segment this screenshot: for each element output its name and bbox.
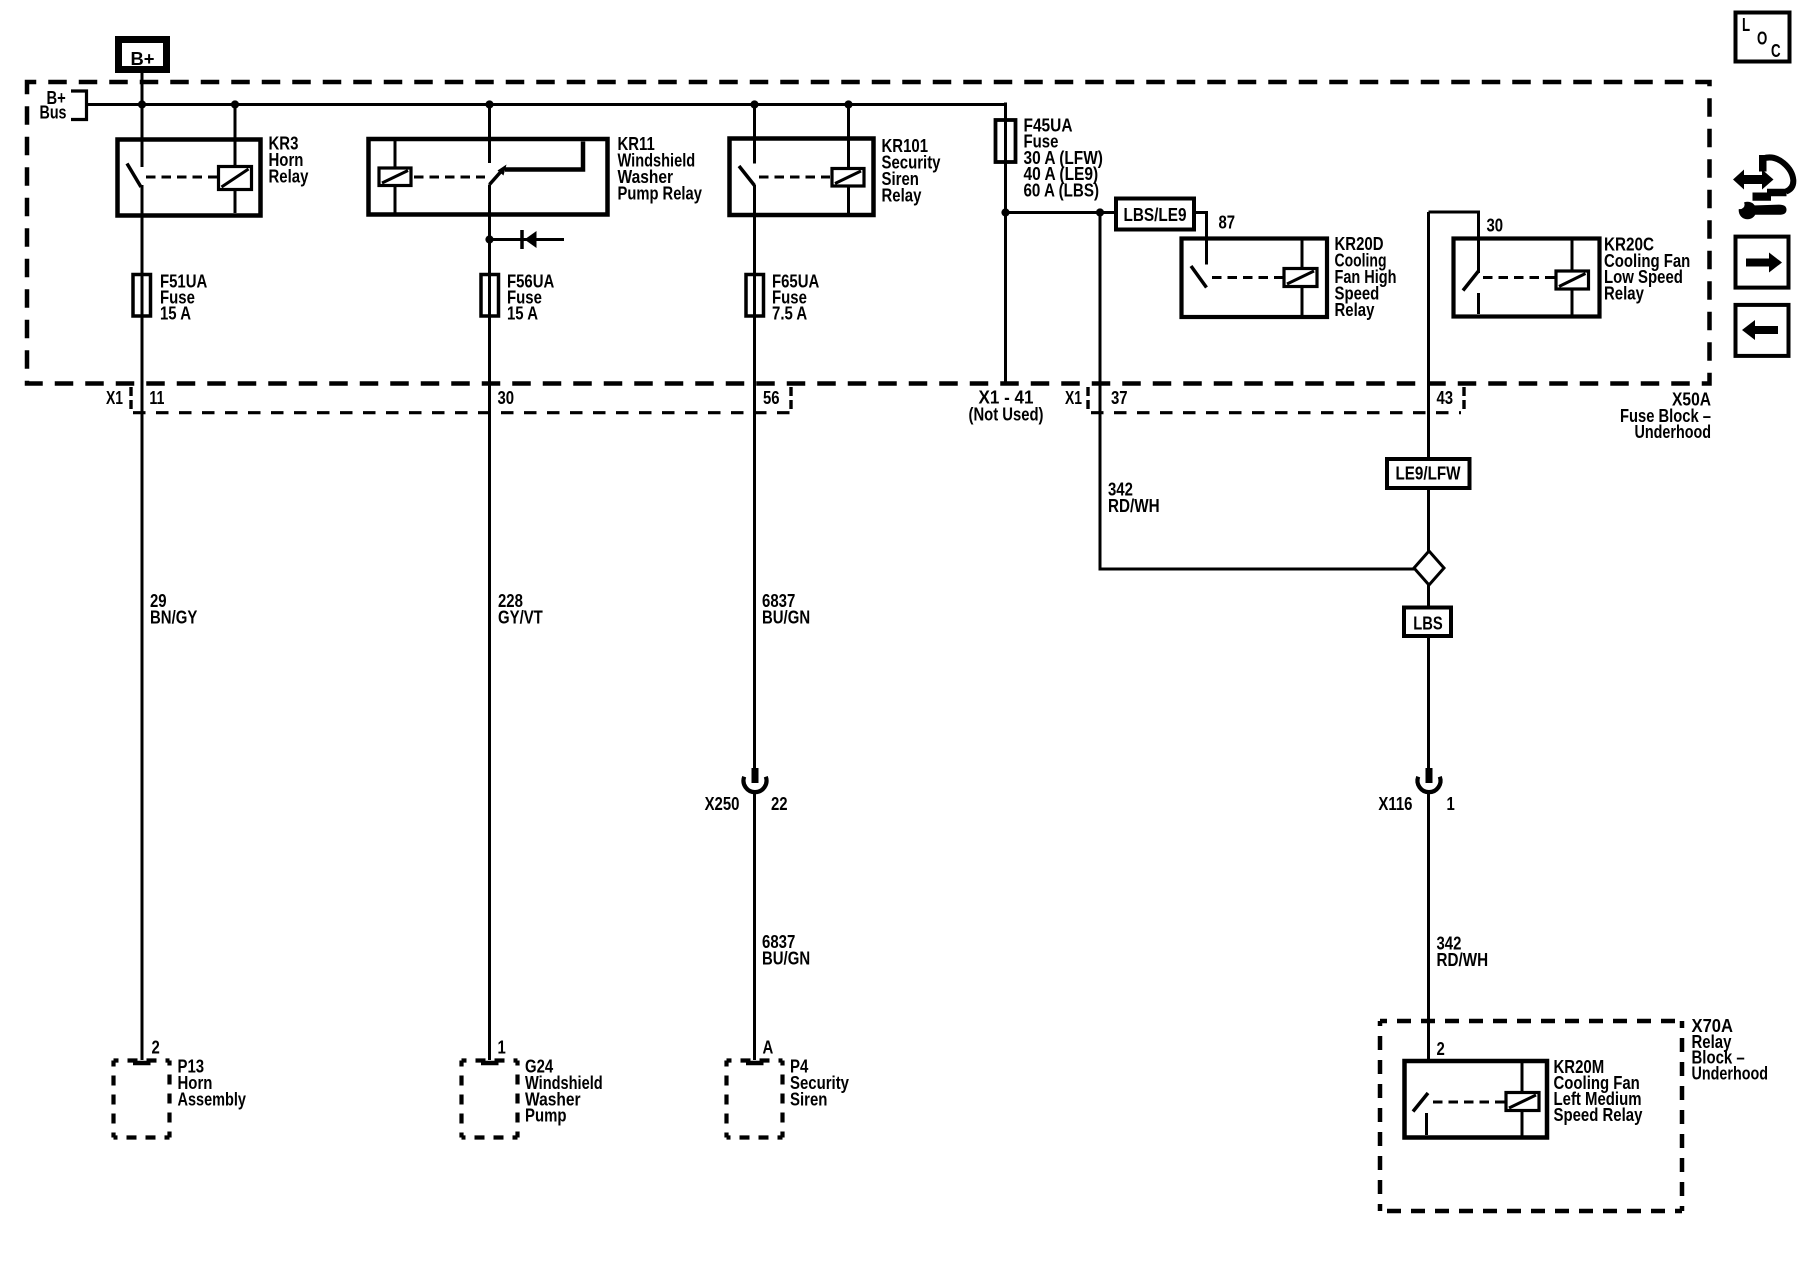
KR20C actuation dashed link	[1483, 276, 1555, 279]
svg-text:X116: X116	[1378, 794, 1412, 814]
connector X1 label left	[106, 388, 123, 408]
pin 2 P13	[152, 1038, 160, 1058]
svg-text:Relay: Relay	[1604, 284, 1644, 304]
wire LBS/LE9 to KR20D pin 87	[1194, 213, 1207, 265]
KR20M coil	[1506, 1063, 1539, 1136]
G24 terminal bar	[481, 1061, 499, 1066]
svg-text:BN/GY: BN/GY	[150, 607, 197, 627]
pin 2 KR20M	[1437, 1039, 1445, 1059]
wire bus corner down through F45UA	[1004, 103, 1007, 213]
component G24 dashed box	[462, 1061, 518, 1138]
relay KR20C box	[1454, 239, 1600, 317]
fuse F56UA	[481, 275, 499, 317]
relay KR20D box	[1182, 239, 1328, 318]
pin 56	[763, 388, 780, 408]
svg-text:LBS: LBS	[1413, 614, 1443, 634]
relay block X70A dashed border	[1380, 1021, 1682, 1211]
KR20C switch blade	[1463, 271, 1479, 314]
wire stub X1-41 not used	[1004, 213, 1007, 383]
wire KR11 output down to G24	[488, 185, 491, 1061]
KR3 actuation dashed link	[146, 176, 217, 179]
svg-text:15 A: 15 A	[507, 304, 538, 324]
pin 11	[149, 388, 164, 408]
component P4 dashed box	[727, 1061, 783, 1138]
svg-text:7.5 A: 7.5 A	[772, 304, 807, 324]
battery terminal B+	[119, 40, 167, 70]
svg-text:11: 11	[149, 388, 164, 408]
separator after 56	[789, 387, 792, 409]
wire KR3 switch output down to P13	[141, 185, 144, 1060]
svg-text:RD/WH: RD/WH	[1108, 496, 1160, 516]
KR20D coil	[1284, 241, 1317, 316]
wire label 342 RD/WH lower	[1437, 934, 1489, 970]
svg-text:C: C	[1771, 41, 1781, 61]
relay KR20D label	[1335, 234, 1397, 320]
connector X250 labels	[705, 794, 788, 814]
svg-text:56: 56	[763, 388, 780, 408]
relay KR20M box	[1405, 1061, 1548, 1138]
svg-text:Siren: Siren	[790, 1089, 827, 1109]
net tag LBS	[1404, 608, 1451, 637]
wire KR101 switch feed from bus	[750, 100, 758, 163]
pin 30 label	[1487, 216, 1504, 236]
svg-text:Relay: Relay	[882, 185, 922, 205]
svg-text:GY/VT: GY/VT	[498, 607, 543, 627]
forward arrow box	[1736, 237, 1789, 288]
svg-text:Underhood: Underhood	[1692, 1064, 1769, 1084]
wire label 6837 BU/GN	[762, 591, 810, 627]
vehicle double-arrow icon	[1733, 155, 1793, 201]
svg-text:X1: X1	[106, 388, 123, 408]
fuse F51UA	[133, 275, 151, 317]
relay block X70A name	[1692, 1016, 1769, 1083]
KR20M actuation dashed link	[1433, 1101, 1505, 1104]
svg-text:LE9/LFW: LE9/LFW	[1396, 464, 1461, 484]
component G24 label	[525, 1057, 603, 1126]
KR11 switch blade with arrow	[490, 165, 507, 185]
KR11 normally-open contact branch	[505, 142, 583, 170]
connector X1 label right	[1065, 388, 1082, 408]
fuse F56UA label	[507, 271, 554, 323]
fuse F65UA	[746, 275, 764, 317]
wire KR101 output down to P4	[753, 185, 756, 1060]
KR20C coil	[1556, 241, 1589, 315]
fuse F45UA	[996, 120, 1016, 162]
wire pin 37 drop and run to diamond	[1100, 213, 1414, 570]
separator X1|11	[129, 387, 132, 409]
wire B+ terminal drop to KR3 switch	[138, 73, 146, 167]
relay KR101 label	[882, 136, 941, 205]
svg-text:B+: B+	[131, 49, 155, 69]
node B+ Bus label	[40, 88, 87, 122]
svg-text:43: 43	[1437, 388, 1454, 408]
KR11 coil	[379, 168, 411, 186]
connector X116 labels	[1378, 794, 1454, 814]
node junction below F45UA	[1001, 208, 1009, 216]
svg-text:30: 30	[1487, 216, 1504, 236]
svg-text:Bus: Bus	[40, 102, 67, 122]
net tag LE9/LFW	[1387, 459, 1470, 488]
component P4 label	[790, 1057, 849, 1110]
relay KR20C label	[1604, 235, 1690, 304]
fuse block X50A name	[1620, 390, 1711, 442]
svg-text:LBS/LE9: LBS/LE9	[1124, 205, 1187, 225]
svg-text:Pump Relay: Pump Relay	[618, 183, 702, 203]
svg-text:BU/GN: BU/GN	[762, 948, 810, 968]
relay KR20M label	[1554, 1057, 1643, 1125]
component P13 label	[178, 1057, 247, 1110]
svg-text:60 A (LBS): 60 A (LBS)	[1024, 180, 1100, 200]
KR101 switch blade	[739, 166, 755, 186]
svg-text:30: 30	[498, 388, 515, 408]
svg-text:15 A: 15 A	[160, 304, 191, 324]
fuse F45UA label	[1024, 116, 1103, 201]
svg-text:Speed Relay: Speed Relay	[1554, 1105, 1643, 1125]
LOC reference box	[1736, 13, 1790, 62]
net tag LBS/LE9	[1116, 199, 1194, 230]
svg-text:22: 22	[771, 794, 788, 814]
svg-text:1: 1	[498, 1038, 506, 1058]
wire KR11 switch feed from bus	[485, 100, 493, 163]
connector row thin dashed line left segment	[133, 411, 791, 414]
wire branch to LBS/LE9	[1006, 208, 1117, 216]
separator X1|37	[1086, 387, 1089, 409]
KR11 actuation dashed link	[414, 176, 485, 179]
P13 terminal bar	[133, 1061, 151, 1066]
svg-text:BU/GN: BU/GN	[762, 607, 810, 627]
fuse F65UA label	[772, 271, 819, 323]
KR101 coil	[832, 169, 864, 187]
KR20M switch blade	[1413, 1093, 1428, 1135]
wire KR20C pin30 L-feed	[1429, 212, 1479, 273]
svg-text:Underhood: Underhood	[1635, 422, 1712, 442]
pin 30	[498, 388, 515, 408]
svg-text:X1: X1	[1065, 388, 1082, 408]
relay KR101 box	[730, 139, 874, 216]
wire KR3 coil feed from bus	[231, 100, 239, 213]
KR3 coil	[219, 167, 252, 190]
svg-text:O: O	[1757, 29, 1767, 49]
component P13 dashed box	[114, 1061, 170, 1138]
diode branch junction	[485, 235, 564, 243]
svg-text:X250: X250	[705, 794, 740, 814]
svg-text:Assembly: Assembly	[178, 1089, 247, 1109]
svg-text:2: 2	[152, 1038, 160, 1058]
KR101 actuation dashed link	[759, 176, 830, 179]
fuse block X50A dashed border	[27, 82, 1710, 384]
wire KR101 coil feed from bus	[844, 100, 852, 213]
pin A P4	[763, 1038, 774, 1058]
svg-text:(Not Used): (Not Used)	[969, 404, 1044, 424]
KR3 switch blade	[127, 164, 141, 188]
KR20D switch blade	[1191, 266, 1207, 288]
svg-text:37: 37	[1111, 388, 1128, 408]
wire label 29 BN/GY	[150, 591, 197, 627]
pin 43	[1437, 388, 1454, 408]
svg-text:L: L	[1742, 15, 1750, 35]
svg-text:Pump: Pump	[525, 1106, 567, 1126]
wire label 228 GY/VT	[498, 591, 543, 627]
svg-text:87: 87	[1219, 213, 1236, 233]
KR20D actuation dashed link	[1212, 276, 1283, 279]
connector X250	[743, 768, 766, 792]
connector row thin dashed line right segment	[1091, 411, 1461, 414]
splice diamond	[1414, 551, 1444, 585]
diode symbol	[522, 230, 537, 249]
fuse F51UA label	[160, 271, 207, 323]
back arrow box	[1736, 305, 1789, 356]
svg-text:A: A	[763, 1038, 774, 1058]
KR11 coil feed stubs	[394, 141, 397, 213]
wire label 342 RD/WH pin37	[1108, 480, 1160, 516]
wrench icon	[1735, 200, 1786, 219]
relay KR11 box	[369, 139, 608, 215]
relay KR3 label	[269, 134, 309, 187]
svg-text:Relay: Relay	[269, 166, 309, 186]
pin 37	[1111, 388, 1128, 408]
relay KR11 label	[618, 134, 702, 203]
pin 87 label	[1219, 213, 1236, 233]
P4 terminal bar	[746, 1061, 764, 1066]
pin 1 G24	[498, 1038, 506, 1058]
wire B+ bus horizontal	[87, 103, 1006, 106]
connector X116	[1418, 768, 1441, 792]
wire pin 43 long drop	[1427, 212, 1430, 1061]
wire label 6837 BU/GN lower	[762, 932, 810, 968]
svg-text:2: 2	[1437, 1039, 1445, 1059]
svg-text:RD/WH: RD/WH	[1437, 950, 1489, 970]
pin X1-41 not used label	[969, 388, 1044, 425]
svg-text:Relay: Relay	[1335, 300, 1375, 320]
relay KR3 box	[118, 140, 261, 216]
svg-text:1: 1	[1447, 794, 1455, 814]
separator after 43	[1462, 387, 1465, 409]
